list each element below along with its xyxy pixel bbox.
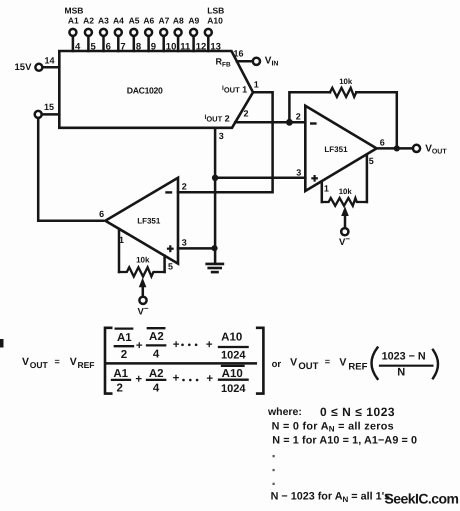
pin A9 terminal bbox=[190, 29, 197, 51]
svg-text:N = 0 for AN = all zeros: N = 0 for AN = all zeros bbox=[272, 421, 394, 434]
wire ground rail to right op-amp non-inverting input bbox=[215, 177, 305, 180]
svg-text:4: 4 bbox=[153, 349, 160, 361]
svg-text:A6: A6 bbox=[143, 16, 154, 26]
label IOUT1 pin 1 bbox=[222, 79, 259, 94]
main fraction bar formula 1 bbox=[107, 362, 256, 365]
svg-text:OUT: OUT bbox=[298, 361, 318, 372]
where conditions text block bbox=[267, 405, 417, 504]
pin A7 terminal bbox=[160, 29, 167, 51]
wiper arrow of R1 bbox=[139, 278, 147, 297]
svg-text:N − 1023 for AN = all 1's: N − 1023 for AN = all 1's bbox=[271, 491, 391, 504]
svg-text:8: 8 bbox=[136, 42, 141, 53]
svg-text:SeekIC.com: SeekIC.com bbox=[385, 491, 459, 507]
svg-text:15V: 15V bbox=[15, 62, 33, 73]
pin numbers 4-13 bbox=[75, 42, 221, 53]
svg-text:2: 2 bbox=[296, 112, 301, 122]
svg-text:A9: A9 bbox=[188, 16, 199, 26]
svg-text:1: 1 bbox=[254, 79, 259, 89]
resistor R2 10k feedback bbox=[289, 77, 396, 148]
ellipsis dots formula 1 bbox=[181, 344, 198, 382]
svg-text:3: 3 bbox=[296, 168, 301, 178]
svg-text:1024: 1024 bbox=[221, 350, 246, 362]
wire pin15 to left op-amp output bbox=[38, 118, 103, 221]
labels A1-A10 bbox=[68, 16, 223, 26]
svg-text:A2: A2 bbox=[149, 331, 164, 343]
svg-text:A1: A1 bbox=[113, 368, 128, 380]
svg-text:LSB: LSB bbox=[207, 5, 224, 15]
svg-text:IOUT 1: IOUT 1 bbox=[222, 84, 247, 94]
svg-text:0 ≤ N ≤ 1023: 0 ≤ N ≤ 1023 bbox=[320, 405, 395, 419]
pin A2 terminal bbox=[85, 29, 92, 51]
svg-text:A4: A4 bbox=[113, 16, 124, 26]
svg-text:A10: A10 bbox=[221, 331, 242, 343]
overbar A1 numerator bbox=[116, 327, 133, 329]
junction IOUT2 / feedback tap bbox=[286, 119, 293, 126]
svg-text:2: 2 bbox=[121, 349, 127, 361]
svg-text:N = 1 for A10 = 1, A1−A9 = 0: N = 1 for A10 = 1, A1−A9 = 0 bbox=[272, 435, 417, 447]
pin A8 terminal bbox=[175, 29, 182, 51]
op-amp U3 LF351 (right, output) bbox=[296, 106, 385, 194]
ground bbox=[207, 264, 223, 272]
svg-text:5: 5 bbox=[168, 261, 173, 271]
overbar A10 denominator bbox=[222, 365, 244, 367]
pin A5 terminal bbox=[130, 29, 137, 51]
svg-text:LF351: LF351 bbox=[324, 145, 348, 154]
formula 2: or VOUT = VREF((1023-N)/N) bbox=[272, 351, 426, 379]
svg-text:6: 6 bbox=[380, 138, 385, 148]
wiper arrow of R3 bbox=[341, 206, 349, 228]
pin A10 terminal bbox=[205, 29, 212, 51]
svg-text:VIN: VIN bbox=[265, 56, 279, 68]
junction ground rail / left +input bbox=[211, 245, 217, 251]
pin 15 terminal bbox=[35, 102, 60, 118]
terminal VIN bbox=[253, 56, 279, 68]
svg-text:A3: A3 bbox=[98, 16, 109, 26]
terminal V- (right) bbox=[339, 228, 350, 248]
svg-text:9: 9 bbox=[151, 42, 156, 53]
svg-text:A1: A1 bbox=[68, 16, 79, 26]
svg-text:=: = bbox=[325, 357, 330, 367]
pin A4 terminal bbox=[115, 29, 122, 51]
svg-text:MSB: MSB bbox=[65, 5, 84, 15]
svg-text:6: 6 bbox=[106, 42, 111, 53]
pin A3 terminal bbox=[100, 29, 107, 51]
svg-text:A7: A7 bbox=[158, 16, 169, 26]
junction ground rail / +input rail bbox=[212, 175, 218, 181]
svg-text:16: 16 bbox=[234, 48, 244, 58]
formula 1 head: VOUT = VREF bbox=[22, 356, 95, 370]
wire left op-amp non-inverting input to ground rail bbox=[178, 247, 215, 250]
DAC1020 U1 body bbox=[59, 51, 253, 128]
svg-text:DAC1020: DAC1020 bbox=[127, 85, 163, 95]
svg-text:V−: V− bbox=[339, 234, 350, 248]
svg-text:10: 10 bbox=[166, 42, 177, 53]
svg-text:A10: A10 bbox=[222, 368, 243, 380]
svg-text:1: 1 bbox=[324, 183, 329, 193]
svg-text:V: V bbox=[290, 357, 297, 369]
pin 16 RFB wire to VIN bbox=[216, 48, 253, 68]
svg-text:N: N bbox=[397, 367, 405, 379]
svg-text:13: 13 bbox=[210, 42, 221, 53]
svg-text:A5: A5 bbox=[129, 16, 140, 26]
svg-text:RFB: RFB bbox=[216, 57, 231, 69]
junction output/feedback bbox=[394, 145, 400, 151]
label IOUT2 pin 2 bbox=[205, 108, 249, 123]
svg-text:2: 2 bbox=[244, 108, 249, 118]
wire IOUT2 to right op-amp inverting input bbox=[235, 121, 305, 124]
svg-text:4: 4 bbox=[75, 42, 81, 53]
svg-text:LF351: LF351 bbox=[137, 217, 161, 226]
overbar A2 numerator bbox=[148, 327, 165, 329]
svg-text:or: or bbox=[272, 359, 282, 370]
svg-text:+: + bbox=[135, 373, 142, 385]
svg-text:A1: A1 bbox=[117, 332, 132, 344]
svg-text:V: V bbox=[22, 356, 29, 368]
svg-text:VOUT: VOUT bbox=[425, 144, 447, 156]
vertical ellipsis dots bbox=[273, 455, 275, 485]
svg-text:14: 14 bbox=[45, 55, 55, 65]
wire IOUT1 to left op-amp inverting input bbox=[178, 92, 273, 192]
svg-text:IOUT 2: IOUT 2 bbox=[205, 114, 230, 124]
svg-text:5: 5 bbox=[369, 156, 374, 166]
svg-text:+: + bbox=[136, 340, 143, 352]
potentiometer R3 10k (right offset trim) bbox=[322, 155, 367, 206]
svg-text:5: 5 bbox=[91, 42, 97, 53]
svg-text:10k: 10k bbox=[339, 77, 353, 86]
svg-text:V−: V− bbox=[138, 304, 149, 318]
mini fraction bars bbox=[115, 345, 133, 347]
svg-text:V: V bbox=[339, 357, 346, 369]
bracket left of formula 1 bbox=[105, 328, 111, 394]
svg-text:V: V bbox=[70, 356, 77, 368]
svg-text:OUT: OUT bbox=[30, 360, 49, 370]
svg-text:+: + bbox=[206, 373, 213, 385]
svg-text:1024: 1024 bbox=[221, 383, 246, 395]
svg-text:where:: where: bbox=[267, 406, 302, 418]
svg-text:1023 − N: 1023 − N bbox=[382, 351, 426, 363]
svg-text:+: + bbox=[206, 339, 213, 351]
edge artifact left margin bbox=[0, 339, 4, 348]
bracket right of formula 1 bbox=[257, 328, 263, 394]
svg-text:7: 7 bbox=[120, 42, 125, 53]
svg-text:A2: A2 bbox=[83, 16, 94, 26]
pin 3 wire to ground rail bbox=[215, 128, 224, 263]
svg-text:4: 4 bbox=[153, 382, 160, 394]
terminal V- (left) bbox=[138, 297, 149, 318]
svg-text:10k: 10k bbox=[136, 256, 150, 265]
svg-text:12: 12 bbox=[196, 42, 207, 53]
wire output to VOUT bbox=[377, 147, 413, 150]
pin A6 terminal bbox=[145, 29, 152, 51]
svg-text:6: 6 bbox=[99, 209, 104, 219]
svg-text:2: 2 bbox=[116, 382, 122, 394]
potentiometer R1 10k (left offset trim) bbox=[119, 229, 165, 277]
svg-text:2: 2 bbox=[182, 181, 187, 191]
svg-text:REF: REF bbox=[78, 360, 95, 370]
pin A1 terminal bbox=[69, 29, 76, 51]
svg-text:A10: A10 bbox=[207, 16, 223, 26]
svg-text:+: + bbox=[173, 339, 180, 351]
pin 14 terminal 15V bbox=[15, 55, 60, 73]
svg-text:A8: A8 bbox=[173, 16, 184, 26]
svg-text:10k: 10k bbox=[339, 187, 353, 196]
svg-text:A2: A2 bbox=[149, 368, 164, 380]
svg-text:3: 3 bbox=[182, 237, 187, 247]
svg-text:11: 11 bbox=[180, 42, 191, 53]
svg-text:REF: REF bbox=[348, 361, 367, 372]
svg-text:15: 15 bbox=[44, 102, 54, 112]
svg-text:+: + bbox=[173, 373, 180, 385]
svg-text:3: 3 bbox=[219, 131, 224, 141]
svg-text:=: = bbox=[55, 356, 60, 366]
op-amp U2 LF351 (left, mirrored) bbox=[99, 178, 187, 271]
terminal VOUT bbox=[413, 144, 447, 156]
